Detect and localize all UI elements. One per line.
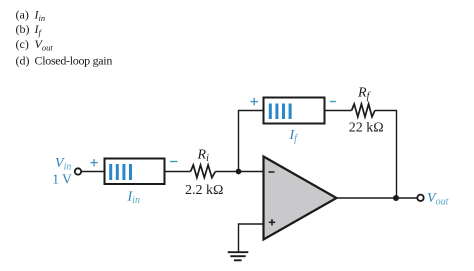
- feedback wire up from junction to If meter: [239, 111, 264, 172]
- wire meter to Ri: [165, 171, 191, 173]
- op-amp inverting input minus: [269, 171, 275, 173]
- wire If meter to Rf: [325, 110, 352, 112]
- svg-text:(b): (b): [16, 22, 30, 36]
- ammeter Iin bars: [109, 164, 132, 180]
- list item (b) If: [16, 22, 43, 38]
- wire non-inverting input to ground: [239, 224, 265, 252]
- op-amp U1 triangle: [264, 157, 337, 240]
- ammeter If bars: [269, 104, 292, 120]
- minus sign at Iin meter: [170, 161, 178, 163]
- list item (d) Closed-loop gain: [16, 53, 113, 67]
- minus sign at If meter: [330, 101, 336, 103]
- svg-text:(a): (a): [16, 7, 29, 21]
- svg-text:Closed-loop gain: Closed-loop gain: [35, 53, 113, 67]
- list item (c) Vout: [16, 37, 54, 53]
- output wire from op-amp: [337, 197, 418, 199]
- svg-text:(d): (d): [16, 53, 30, 67]
- resistor Rf zigzag: [352, 104, 375, 117]
- plus sign at Iin meter: [90, 159, 97, 166]
- svg-text:2.2 kΩ: 2.2 kΩ: [185, 183, 223, 198]
- input terminal circle: [75, 168, 81, 174]
- svg-text:22 kΩ: 22 kΩ: [349, 120, 384, 135]
- wire Rf down to output node: [375, 111, 397, 199]
- plus sign at If meter: [250, 98, 258, 106]
- output terminal circle: [417, 195, 423, 201]
- junction node at output: [393, 195, 399, 201]
- ammeter Iin box: [105, 159, 165, 185]
- ground symbol: [228, 252, 249, 260]
- ammeter If box: [264, 98, 325, 124]
- junction node at inverting input: [236, 169, 242, 175]
- list item (a) Iin: [16, 7, 46, 23]
- svg-text:1 V: 1 V: [52, 172, 72, 187]
- resistor Ri zigzag: [191, 165, 216, 178]
- op-amp non-inverting input plus: [269, 219, 275, 225]
- wire input to Iin meter: [81, 171, 104, 173]
- wire Ri to op-amp inverting input: [215, 171, 264, 173]
- svg-text:(c): (c): [16, 37, 29, 51]
